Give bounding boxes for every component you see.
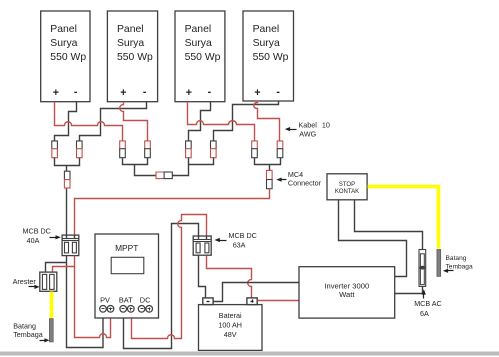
svg-text:PV: PV [100, 296, 110, 305]
svg-text:+: + [120, 87, 126, 99]
wire PV4 plus to fuse F8 (red, hop over black wire) [254, 101, 280, 141]
svg-text:Panel: Panel [117, 24, 144, 35]
svg-text:+: + [254, 87, 260, 99]
fuse F3 [120, 141, 126, 158]
svg-text:Watt: Watt [339, 290, 355, 299]
svg-text:BAT: BAT [119, 296, 133, 305]
MCB AC 6A breaker [419, 250, 426, 287]
svg-text:Batang: Batang [13, 321, 36, 330]
wire MPPT BAT+ to MCB DC 63A (red, hops) [132, 215, 207, 339]
svg-text:Surya: Surya [50, 38, 77, 49]
svg-text:63A: 63A [233, 241, 246, 250]
svg-text:550 Wp: 550 Wp [253, 52, 289, 63]
wire F7 F8 bottoms join [255, 158, 281, 165]
svg-text:100 AH: 100 AH [218, 320, 242, 329]
svg-text:Arester: Arester [13, 277, 37, 286]
svg-text:-: - [276, 86, 280, 98]
svg-text:48V: 48V [224, 330, 237, 339]
svg-text:Tembaga: Tembaga [446, 263, 473, 270]
wire F1 F2 bottoms join [55, 158, 80, 166]
label Batang Tembaga left [13, 321, 49, 342]
svg-text:+: + [53, 87, 59, 99]
label MCB AC 6A [414, 289, 442, 318]
panel PV3 [175, 11, 225, 102]
svg-text:MCB DC: MCB DC [23, 227, 51, 236]
wire PV2 minus to fuse F2 [80, 102, 147, 141]
wire F3 F4 bottoms join [123, 158, 148, 165]
svg-text:DC: DC [140, 296, 151, 305]
copper rod right (batang tembaga) [437, 250, 441, 277]
fuse F2 [77, 141, 83, 158]
svg-text:Surya: Surya [117, 38, 144, 49]
wire PV3 plus to fuse F7 (red, hops over black wires) [188, 102, 255, 141]
svg-text:6A: 6A [420, 309, 429, 318]
MPPT controller box [95, 234, 159, 318]
svg-text:STOP: STOP [339, 182, 355, 188]
label Arester [13, 277, 40, 289]
label Batang Tembaga right [443, 255, 473, 273]
wire MPPT BAT- to MCB DC 63A (black) [124, 224, 199, 349]
yellow ground wire from arrester [50, 292, 54, 319]
svg-text:KONTAK: KONTAK [335, 189, 359, 195]
stop kontak box [327, 174, 367, 200]
wire stop kontak left to inverter right (black) [339, 200, 407, 277]
yellow wire stop kontak to copper rod [368, 187, 439, 249]
svg-text:-: - [143, 86, 147, 98]
svg-text:40A: 40A [27, 236, 40, 245]
wire MCB63 right pole to battery plus terminal (red, hop) [207, 256, 252, 298]
svg-text:Baterai: Baterai [219, 311, 242, 320]
panel PV2 [107, 11, 157, 102]
panel PV1 [41, 11, 90, 102]
wire PV4 minus to fuse F6 [214, 101, 279, 141]
svg-text:Surya: Surya [185, 38, 212, 49]
MC4 connector right [267, 170, 273, 188]
terminal PV- [100, 306, 107, 313]
svg-text:Kabel 10: Kabel 10 [299, 121, 330, 130]
wire battery plus to inverter (red) [258, 300, 299, 302]
svg-text:Panel: Panel [50, 24, 77, 35]
wire PV1 minus to fuse F1 [55, 102, 77, 141]
fuse F4 [145, 141, 151, 158]
svg-text:550 Wp: 550 Wp [185, 52, 221, 63]
inverter box [299, 267, 395, 318]
MCB DC 63A [193, 236, 211, 255]
wire PV3 minus to fuse F5 [189, 102, 211, 141]
panel PV4 [243, 11, 294, 101]
wire battery minus to inverter (black) [214, 283, 299, 302]
wire MCB40 left pole down to PV minus (black) [67, 256, 104, 348]
wire join to MC4 left [66, 166, 68, 172]
svg-text:Panel: Panel [253, 24, 280, 35]
terminal PV+ [107, 306, 114, 313]
svg-text:MC4: MC4 [288, 170, 303, 179]
MC4 connector left [64, 171, 70, 188]
label MCB DC 63A [215, 231, 257, 250]
MC4 connector middle [156, 172, 172, 179]
battery terminal minus [203, 298, 213, 305]
fuse F8 [277, 141, 283, 158]
wire join to MC4 middle [135, 165, 157, 176]
wire MCB AC bottom to inverter right (black) [395, 287, 423, 294]
wire MC4 middle to F5 F6 join [173, 165, 189, 176]
svg-text:550 Wp: 550 Wp [50, 52, 86, 63]
svg-text:Tembaga: Tembaga [13, 330, 43, 339]
wire MCB63 left pole to battery minus terminal [199, 256, 206, 298]
svg-text:Connector: Connector [288, 179, 322, 188]
fuse F6 [211, 141, 217, 158]
svg-text:Surya: Surya [253, 38, 280, 49]
copper rod left (batang tembaga) [49, 319, 53, 342]
svg-text:+: + [186, 87, 192, 99]
terminal DC+ [146, 306, 153, 313]
wire MC4 right to MCB DC 40A right pole (red) [75, 189, 270, 236]
terminal DC- [138, 306, 145, 313]
svg-text:-: - [74, 86, 78, 98]
wire MC4 left to MCB DC 40A [66, 189, 68, 236]
arrester [40, 272, 57, 291]
wire F5 F6 bottoms join [189, 158, 214, 165]
battery box [199, 305, 263, 351]
svg-text:-: - [208, 86, 212, 98]
fuse F5 [186, 141, 192, 158]
terminal BAT- [120, 306, 127, 313]
fuse F1 [52, 141, 58, 158]
svg-text:AWG: AWG [299, 129, 316, 138]
wire stop kontak right to MCB AC top (black) [355, 200, 423, 250]
label Kabel 10 AWG [285, 121, 330, 139]
battery terminal plus [247, 298, 257, 305]
wire PV1 plus to fuse F3 (red, hops over black wires) [55, 102, 123, 141]
wire MCB40 right pole down to PV plus (red, hop) [75, 256, 111, 338]
svg-text:MCB DC: MCB DC [229, 231, 257, 240]
label MC4 Connector right [276, 170, 321, 188]
svg-text:Panel: Panel [185, 24, 212, 35]
label MCB DC 40A [23, 227, 61, 246]
svg-text:550 Wp: 550 Wp [117, 52, 153, 63]
wire branch to arrester left [46, 263, 67, 273]
svg-text:MCB AC: MCB AC [414, 299, 442, 308]
svg-text:Batang: Batang [446, 255, 467, 262]
MCB DC 40A [62, 235, 79, 256]
terminal BAT+ [128, 306, 135, 313]
wire PV2 plus to fuse F4 (red, hop over black wire) [120, 102, 148, 141]
fuse F7 [252, 141, 258, 158]
bottom gray band [0, 352, 499, 356]
wire branch to arrester right (red) [53, 267, 75, 273]
svg-text:MPPT: MPPT [115, 243, 138, 253]
wire join to MC4 right [269, 165, 271, 171]
